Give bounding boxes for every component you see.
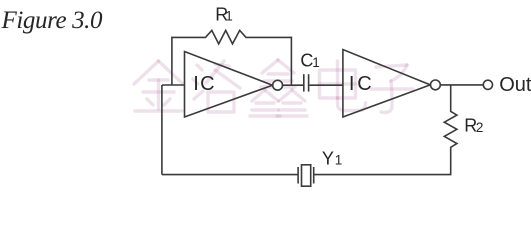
svg-text:Y: Y — [322, 149, 334, 169]
watermark char 电 — [320, 61, 366, 111]
wire bottom right segment — [314, 174, 452, 176]
svg-text:1: 1 — [225, 8, 233, 23]
capacitor C1 right plate — [308, 74, 310, 91]
wire output to Out terminal — [440, 84, 483, 86]
wire left vertical down to bottom loop — [161, 85, 163, 175]
node Out terminal circle — [483, 80, 492, 89]
resistor R2 vertical with wires — [444, 85, 457, 175]
watermark char 子 — [371, 65, 413, 112]
wire C1 to inverter 2 — [309, 84, 343, 86]
svg-text:1: 1 — [312, 55, 320, 70]
wire feedback top with resistor R1 zigzag — [172, 30, 292, 44]
watermark char 鑫 — [250, 60, 307, 116]
wire bottom left segment — [162, 174, 298, 176]
crystal Y1 left plate — [297, 167, 299, 184]
watermark char 金 — [134, 61, 183, 111]
svg-text:C: C — [200, 73, 214, 95]
op-amp U1 inverter triangle — [185, 52, 273, 118]
wire feedback left vertical — [171, 37, 173, 85]
svg-text:I: I — [349, 73, 355, 95]
svg-text:Figure 3.0: Figure 3.0 — [1, 7, 104, 34]
svg-text:2: 2 — [476, 120, 484, 135]
wire feedback right vertical — [290, 37, 292, 86]
watermark 金洛鑫电子 — [134, 60, 413, 116]
capacitor C1 left plate — [303, 74, 305, 91]
op-amp U1 output bubble — [273, 80, 283, 90]
svg-text:I: I — [193, 73, 199, 95]
crystal Y1 body rectangle — [302, 165, 311, 186]
watermark char 洛 — [193, 61, 240, 112]
svg-text:C: C — [357, 73, 371, 95]
op-amp U2 inverter triangle — [343, 50, 430, 118]
op-amp U2 output bubble — [431, 80, 441, 90]
crystal Y1 right plate — [313, 167, 315, 184]
wire input jog horizontal — [162, 84, 185, 86]
svg-text:1: 1 — [335, 153, 343, 168]
wire bubble1 to C1 — [283, 84, 303, 86]
svg-text:Out: Out — [499, 74, 531, 96]
